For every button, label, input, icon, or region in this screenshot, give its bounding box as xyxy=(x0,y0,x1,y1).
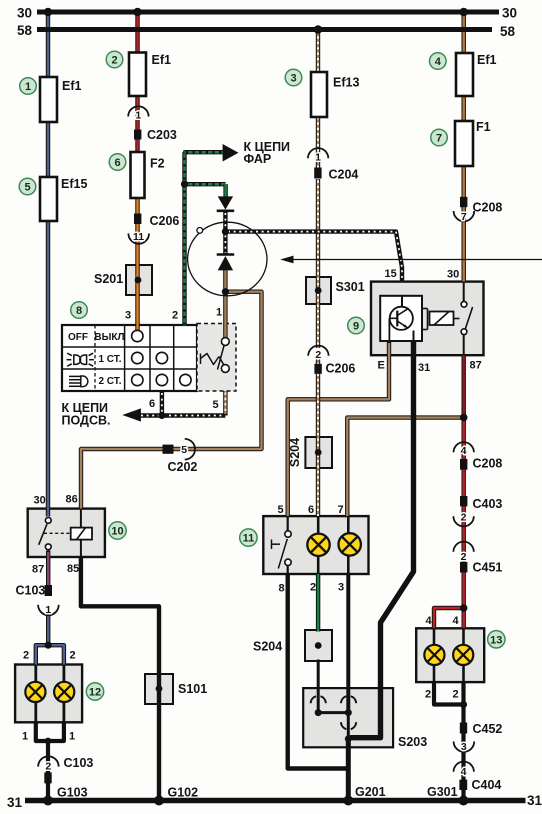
relay K9 fog light relay (9) body xyxy=(371,282,484,356)
svg-text:C451: C451 xyxy=(473,561,503,575)
svg-text:1: 1 xyxy=(45,604,51,616)
splice dot S204 upper xyxy=(315,449,322,456)
wire red right pin 4 of lamp box(13) xyxy=(462,608,466,628)
switch(8) parking light icon xyxy=(67,353,94,366)
svg-text:S204: S204 xyxy=(253,640,282,654)
wire to illumination-circuit arrow black/white xyxy=(139,413,225,417)
callout circle 6 xyxy=(109,154,126,171)
connector C208 square (lower) xyxy=(460,459,467,470)
wire lamp box(13) to C452 C404 to bus 31 black xyxy=(461,682,465,800)
text to illumination circuit xyxy=(62,401,111,428)
lamp L4 box(11) right xyxy=(339,533,361,555)
svg-text:6: 6 xyxy=(308,504,314,516)
wire bus 30 to fuse Ef1(2) red xyxy=(135,12,139,54)
callout circle 7 xyxy=(431,129,448,146)
callout circle 9 xyxy=(348,317,365,334)
callout circle 4 xyxy=(430,53,447,70)
ground G301 node on bus31 xyxy=(459,796,469,806)
splice S203 internal connector arc lower xyxy=(341,722,356,729)
wire switch(8) pin6 down black/white xyxy=(160,391,164,417)
svg-text:5: 5 xyxy=(181,444,187,456)
lamp unit box (11) body xyxy=(263,516,368,574)
fuse Ef1 (2) xyxy=(129,53,146,97)
wire fuse Ef1(1) to fuse Ef15 blue xyxy=(46,120,50,179)
svg-text:4: 4 xyxy=(461,766,467,778)
callout circle 11 xyxy=(240,529,257,546)
relay(10) coil xyxy=(44,509,92,557)
wire diode D1 top stub green xyxy=(223,184,227,198)
svg-text:2: 2 xyxy=(310,582,316,594)
connector C404 arc 4 xyxy=(454,762,474,779)
wire blue right pin 2 of lamp box(12) xyxy=(48,645,64,664)
node junction illumination wire xyxy=(158,412,165,419)
relay(9) transistor driver inner box xyxy=(380,296,422,341)
svg-text:F2: F2 xyxy=(150,157,165,171)
node junction diode D2 to brown branch xyxy=(222,288,229,295)
relay(9) coil xyxy=(422,309,460,330)
svg-text:3: 3 xyxy=(338,582,344,594)
node junction blue split xyxy=(45,642,52,649)
fuse F2 (6) xyxy=(131,152,145,198)
bus 31 line xyxy=(25,798,526,804)
splice dot S201 xyxy=(135,277,142,284)
node junction 87 to pin7 branch xyxy=(460,414,468,422)
svg-text:Ef1: Ef1 xyxy=(477,53,497,67)
svg-text:2: 2 xyxy=(45,761,51,773)
svg-text:4: 4 xyxy=(435,56,442,68)
svg-text:58: 58 xyxy=(17,23,33,38)
node junction green wire xyxy=(181,181,188,188)
switch(8) spring and arm xyxy=(201,345,225,370)
wire connector C203 to fuse F2 red xyxy=(135,138,139,154)
fuse Ef1 (1) xyxy=(40,77,57,122)
connector C204 square xyxy=(314,168,321,179)
wire lamp box(12) pins 1 join black xyxy=(36,722,64,741)
wire bus 58 to fuse Ef13 brown/white xyxy=(316,30,320,75)
wire lamp box(13) pins 2 join black xyxy=(434,682,464,704)
svg-text:30: 30 xyxy=(34,495,46,507)
svg-text:1 СТ.: 1 СТ. xyxy=(98,354,121,365)
wire lamp box(11) pin2 to S204 green xyxy=(316,574,320,632)
svg-text:C103: C103 xyxy=(64,756,94,770)
wire diode D1 cathode to diode D2 cathode black/white xyxy=(223,211,227,255)
svg-text:F1: F1 xyxy=(476,120,491,134)
wire relay(9) pin31 to S203 thick black xyxy=(350,341,414,738)
svg-text:11: 11 xyxy=(243,533,255,545)
splice dot S204 lower xyxy=(315,642,322,649)
svg-text:C452: C452 xyxy=(473,722,503,736)
wire brown branch from diode D2 to relay(10) pin86 via C202 xyxy=(81,292,262,509)
svg-text:5: 5 xyxy=(213,399,219,411)
svg-text:ФАР: ФАР xyxy=(244,152,272,166)
svg-text:2: 2 xyxy=(70,650,76,662)
node junction lamp box(13) pins2 xyxy=(460,701,467,708)
svg-text:G201: G201 xyxy=(355,785,386,799)
connector C103 square (upper) xyxy=(45,585,52,596)
lamp unit box (13) body xyxy=(416,628,484,682)
lamp box(12) internal leads xyxy=(36,665,64,723)
callout circle 13 xyxy=(488,631,505,648)
splice box S203 body xyxy=(303,688,393,747)
svg-text:S203: S203 xyxy=(398,735,427,749)
svg-text:2: 2 xyxy=(315,349,321,361)
svg-text:8: 8 xyxy=(279,583,285,595)
svg-text:Ef13: Ef13 xyxy=(333,76,359,90)
svg-text:1: 1 xyxy=(315,151,321,163)
svg-text:2: 2 xyxy=(23,650,29,662)
connector C208 square (top right) xyxy=(460,197,467,207)
splice dot S301 xyxy=(315,287,322,294)
node S203 dot bottom xyxy=(345,735,352,742)
svg-text:6: 6 xyxy=(149,398,155,410)
wire fuse Ef1(4) to fuse F1 orange-brown xyxy=(462,95,466,123)
svg-text:86: 86 xyxy=(66,494,78,506)
svg-text:2: 2 xyxy=(425,689,431,701)
connector C103 square (lower) xyxy=(44,772,51,783)
node S203 dot right xyxy=(345,709,352,716)
svg-text:31: 31 xyxy=(527,793,542,808)
splice S201 body xyxy=(126,265,152,295)
connector C206 square (left) xyxy=(134,214,141,225)
svg-text:Ef1: Ef1 xyxy=(152,53,172,67)
connector C206 arc 11 xyxy=(128,231,149,244)
wire 87 junction through C208 C403 C451 red xyxy=(462,417,466,608)
relay(10) contact xyxy=(39,518,51,550)
lamp L5 box(13) left xyxy=(424,645,444,665)
node junction bus30 x48 xyxy=(44,8,53,17)
svg-text:C203: C203 xyxy=(147,128,177,142)
connector C103 arc 2 (lower) xyxy=(38,756,59,772)
svg-text:30: 30 xyxy=(17,6,32,21)
svg-text:3: 3 xyxy=(461,741,467,753)
svg-text:4: 4 xyxy=(453,615,460,627)
wire lamp box(11) pin8 to ground run black xyxy=(288,574,350,769)
svg-text:C404: C404 xyxy=(472,778,502,792)
svg-text:1: 1 xyxy=(22,731,28,743)
svg-text:7: 7 xyxy=(436,133,442,145)
svg-text:2: 2 xyxy=(111,55,117,67)
svg-text:13: 13 xyxy=(490,634,502,646)
connector C451 arc 2 xyxy=(453,542,473,563)
small circle marker on highlight xyxy=(197,228,203,234)
connector C208 arc 7 xyxy=(454,211,475,223)
callout circle 5 xyxy=(19,178,36,195)
svg-text:30: 30 xyxy=(502,6,517,21)
switch(8) row2 contact circles xyxy=(132,352,168,363)
ground G102 node on bus31 xyxy=(154,796,164,806)
switch in box(11) xyxy=(272,516,292,574)
arrow to headlamp circuit xyxy=(223,144,239,162)
wire 87 junction to lamp box(11) pin7 brown xyxy=(347,418,463,516)
svg-text:2: 2 xyxy=(461,551,467,563)
wire relay(10) pin87 to C103 purple xyxy=(46,551,50,587)
wire lamp box(11) pin3 to S203 black xyxy=(346,574,350,713)
switch(8) row1 pin3 contact circle xyxy=(132,330,143,341)
svg-text:4: 4 xyxy=(426,615,433,627)
svg-text:9: 9 xyxy=(353,321,359,333)
relay K10 relay (10) body xyxy=(28,509,105,557)
lamp unit box (12) body xyxy=(15,665,82,723)
connector C451 square xyxy=(460,562,467,573)
wire lamp box(12) to C103 to bus 31 black xyxy=(46,741,50,801)
lamp L3 box(11) left xyxy=(307,534,329,556)
splice S101 body xyxy=(145,674,173,704)
node junction diode link to relay pin15 xyxy=(222,228,229,235)
connector C204 arc 1 xyxy=(308,148,328,163)
callout circle 12 xyxy=(86,683,103,700)
svg-text:C206: C206 xyxy=(150,214,180,228)
connector C202 square xyxy=(163,445,174,454)
connector C403 square xyxy=(460,496,467,506)
wire green/black branch to diode D1 xyxy=(185,182,226,186)
wire S203 internal link horizontal xyxy=(318,711,348,714)
svg-text:87: 87 xyxy=(32,564,44,576)
splice S204 upper body xyxy=(305,437,332,468)
arrow to illumination circuit xyxy=(122,408,141,421)
svg-text:C208: C208 xyxy=(473,457,503,471)
transistor Q1 symbol xyxy=(389,296,413,341)
svg-text:31: 31 xyxy=(418,362,430,374)
wire fuse F1 to C208 to relay(9) pin30 orange-brown xyxy=(462,165,466,282)
switch S5 contact section (dashed box) xyxy=(197,324,236,392)
switch(8) row3 contact circles xyxy=(132,374,191,385)
connector C203 arc 1 xyxy=(128,106,148,121)
svg-text:4: 4 xyxy=(461,445,467,457)
ground G103 node on bus31 xyxy=(43,796,53,806)
svg-text:Ef1: Ef1 xyxy=(62,79,82,93)
splice dot S101 xyxy=(156,685,163,692)
svg-text:S101: S101 xyxy=(178,682,207,696)
svg-text:3: 3 xyxy=(290,73,296,85)
highlight circle around diodes xyxy=(188,222,267,296)
wire relay(10) pin85 to S101 to ground G102 black xyxy=(81,557,159,801)
svg-text:C202: C202 xyxy=(168,460,198,474)
wire fuse F2 to S201 to switch(8) pin3 orange xyxy=(135,197,139,334)
wire red branch to lamp box(13) pins 4 xyxy=(434,608,464,628)
svg-text:C403: C403 xyxy=(473,497,503,511)
connector C206 arc 2 (middle) xyxy=(308,346,328,361)
svg-text:2: 2 xyxy=(172,310,178,322)
wire fuse Ef13 to connector C204 brown/white xyxy=(316,116,320,170)
diode D2 xyxy=(217,255,235,271)
node junction red to lamp box(13) xyxy=(460,604,468,612)
fuse Ef15 (5) xyxy=(40,177,57,221)
bus 30 line xyxy=(37,10,499,15)
svg-text:1: 1 xyxy=(25,81,31,93)
svg-text:7: 7 xyxy=(338,504,344,516)
svg-text:15: 15 xyxy=(385,268,397,280)
wire S204 lower to S203 black xyxy=(317,660,320,713)
connector C206 square (middle) xyxy=(314,364,321,374)
lamp box(13) internal leads xyxy=(434,628,464,682)
wire bus 30 to fuse Ef1(4) orange-brown xyxy=(462,12,466,55)
wire fuse Ef1(2) to connector C203 red xyxy=(135,95,139,133)
wire relay(9) pinE to lamp box(11) pin5 brown xyxy=(288,341,389,516)
svg-text:S201: S201 xyxy=(94,272,123,286)
svg-text:1: 1 xyxy=(216,307,222,319)
svg-text:11: 11 xyxy=(133,231,144,243)
connector C404 square xyxy=(459,780,467,790)
callout circle 2 xyxy=(106,51,123,68)
fuse F1 (7) xyxy=(455,121,473,166)
node junction bus30 x463.7 xyxy=(459,8,468,17)
svg-text:10: 10 xyxy=(111,526,123,538)
svg-text:ВЫКЛ: ВЫКЛ xyxy=(94,332,124,343)
svg-text:C208: C208 xyxy=(473,201,503,215)
relay(9) contact xyxy=(461,282,473,356)
svg-text:S301: S301 xyxy=(336,280,365,294)
splice S203 internal connector arcs upper xyxy=(311,696,357,703)
svg-text:31: 31 xyxy=(7,795,23,810)
svg-text:5: 5 xyxy=(278,504,284,516)
svg-text:C206: C206 xyxy=(326,362,356,376)
wire switch(8) pin5 down brown/white xyxy=(223,391,227,416)
splice S301 body xyxy=(306,277,331,304)
wire C204 through S301 to C206 brown/white xyxy=(316,179,320,348)
lamp L6 box(13) right xyxy=(453,645,473,665)
connector C202 arc 5 xyxy=(181,439,195,460)
bus 58 line xyxy=(37,27,492,32)
svg-text:E: E xyxy=(378,360,385,372)
svg-text:G102: G102 xyxy=(168,786,199,800)
diode D1 xyxy=(217,196,235,210)
svg-text:G301: G301 xyxy=(427,785,458,799)
svg-text:8: 8 xyxy=(76,305,82,317)
connector C452 arc 3 xyxy=(454,741,475,753)
wire S203 internal vertical xyxy=(347,713,350,739)
callout circle 10 xyxy=(109,522,126,539)
svg-text:Ef15: Ef15 xyxy=(61,177,87,191)
svg-text:1: 1 xyxy=(135,110,141,122)
node S203 dot left xyxy=(315,709,322,716)
wire green/black headlamp feed vertical to switch(8) pin2 xyxy=(182,150,186,326)
svg-text:2: 2 xyxy=(461,512,467,524)
pointer arrow to highlight circle xyxy=(280,256,542,264)
node junction bus58 x318 xyxy=(314,25,323,34)
svg-text:30: 30 xyxy=(447,269,459,281)
svg-text:G103: G103 xyxy=(57,786,88,800)
connector C208 arc 4 (lower) xyxy=(454,442,474,457)
wire S203 to ground G201 thick black xyxy=(346,739,351,801)
svg-text:12: 12 xyxy=(89,687,101,699)
text to headlamp circuit xyxy=(244,140,291,166)
connector C403 arc 2 xyxy=(453,512,473,527)
svg-text:7: 7 xyxy=(461,211,467,223)
svg-text:C204: C204 xyxy=(329,168,359,182)
svg-text:1: 1 xyxy=(69,731,75,743)
ground G201 node on bus31 xyxy=(343,796,353,806)
svg-text:85: 85 xyxy=(67,563,79,575)
lamp box(11) internal leads xyxy=(318,516,348,574)
svg-text:3: 3 xyxy=(125,310,131,322)
wire C206 through S204 to lamp box(11) pin6 brown/white xyxy=(316,356,320,516)
callout circle 1 xyxy=(20,78,37,95)
svg-text:OFF: OFF xyxy=(68,332,88,343)
node junction bus30 x137.5 xyxy=(133,8,142,17)
svg-text:2: 2 xyxy=(453,689,459,701)
fuse Ef1 (4) xyxy=(456,53,473,96)
connector C452 square xyxy=(460,723,467,734)
svg-text:2 СТ.: 2 СТ. xyxy=(98,376,121,387)
svg-text:58: 58 xyxy=(500,24,516,39)
switch(8) headlamp icon xyxy=(69,376,88,387)
svg-text:S204: S204 xyxy=(288,438,302,467)
wire diode junction to relay(9) pin15 black/white xyxy=(225,232,402,282)
lamp L2 box(12) right xyxy=(54,682,74,702)
svg-text:5: 5 xyxy=(24,182,30,194)
connector C103 arc 1 (upper) xyxy=(38,604,59,616)
wire diode D2 anode down to switch contact pin1 brown xyxy=(223,270,227,339)
wire green/black branch to headlamp-circuit arrow xyxy=(185,150,225,154)
svg-text:ПОДСВ.: ПОДСВ. xyxy=(62,414,111,428)
wire bus 30 to fuse Ef1(1) blue xyxy=(46,12,50,79)
wire C103 to lamp box(12) pins 2 blue xyxy=(36,614,48,665)
splice S204 lower body xyxy=(305,630,332,661)
svg-text:C103: C103 xyxy=(16,584,46,598)
node junction lamp box(12) pins1 xyxy=(45,738,52,745)
lamp L1 box(12) left xyxy=(25,682,45,702)
callout circle 8 xyxy=(71,302,88,319)
wire fuse Ef15 to relay(10) pin30 blue xyxy=(46,219,50,517)
svg-text:6: 6 xyxy=(114,157,120,169)
svg-text:87: 87 xyxy=(470,360,482,372)
connector C203 square xyxy=(134,130,141,140)
switch S5 light switch block (8) table xyxy=(62,325,197,391)
wire relay(9) pin87 down dark red xyxy=(462,355,466,418)
fuse Ef13 (3) xyxy=(311,72,327,117)
switch(8) movable contact circles in dashed box xyxy=(221,338,229,373)
callout circle 3 xyxy=(285,69,302,86)
